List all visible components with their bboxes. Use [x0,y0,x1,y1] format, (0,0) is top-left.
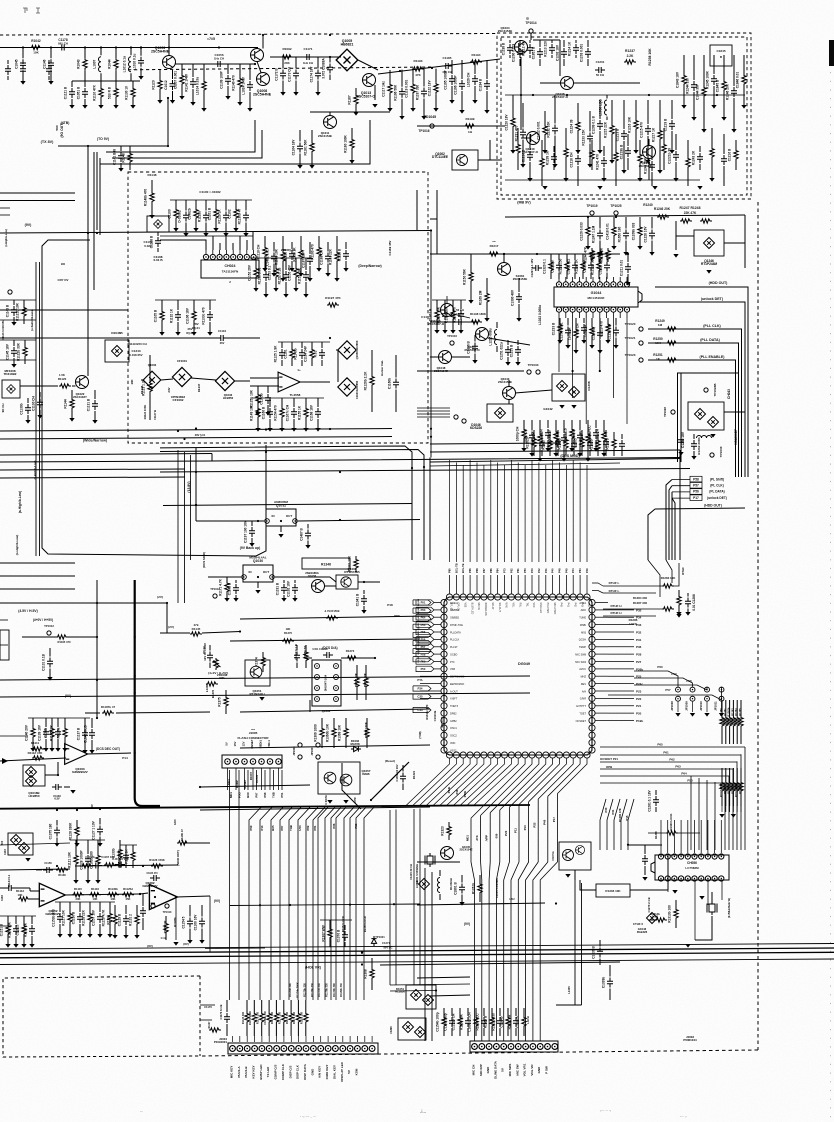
wire CH024 pin3 [219,243,221,250]
flag tag P34 [413,686,431,691]
svg-text:P80: P80 [448,568,452,573]
svg-text:R1309 1000: R1309 1000 [314,724,318,742]
svg-text:C1106 18V: C1106 18V [186,307,190,324]
svg-text:TL4558: TL4558 [290,393,301,397]
svg-text:R1176 330: R1176 330 [271,1011,274,1024]
jumper pad JP1037 b [316,755,320,759]
svg-text:R1112 47K: R1112 47K [28,751,44,755]
svg-text:P17: P17 [552,817,556,822]
capacitor C1213 [20,60,26,80]
svg-text:C1167c CH: C1167c CH [286,404,290,421]
dashed box PLL/VCO unit outer [497,33,751,199]
svg-text:R1146: R1146 [140,385,144,394]
capacitor C1172 [265,386,271,416]
svg-text:C1174 18V: C1174 18V [310,66,314,83]
ground [652,186,657,190]
connector pin J1004-9 [288,1046,294,1052]
filter element [7,385,16,394]
wire CH056 top pin [694,842,696,853]
junction [349,904,351,906]
svg-text:R1178b 330: R1178b 330 [326,983,329,997]
resistor R1109 [237,64,242,106]
pad reg1 out [293,519,298,524]
svg-text:P58: P58 [421,652,426,656]
capacitor C1160 [289,242,295,272]
capacitor C1120 [587,111,593,168]
wire drop x97 [96,580,98,718]
resistor R1130b [107,893,119,897]
resistor R1208 [282,1000,286,1036]
junction [566,94,568,96]
svg-text:L1014 0.33u: L1014 0.33u [196,77,200,95]
svg-text:BCL-TE: BCL-TE [461,563,465,573]
svg-text:C1100: C1100 [168,209,172,218]
wire [45,774,58,776]
pin pad QFP top 13 [529,594,535,600]
resistor R1139 [589,318,594,349]
svg-text:C1130 CH: C1130 CH [32,395,36,410]
wire ref line [430,253,560,255]
wire drop 3 [714,782,716,850]
svg-text:C1152 26V: C1152 26V [248,264,252,281]
capacitor C1130 [527,40,533,58]
svg-text:C1159b B: C1159b B [118,849,122,864]
svg-text:R1131 2: R1131 2 [129,914,133,926]
pin pad QFP right 16 [589,710,595,716]
junction [648,94,650,96]
wire corridor to J1004 pin 4 [280,807,292,1000]
resistor R1237b [624,60,636,64]
svg-text:C1185: C1185 [443,56,452,60]
junction [503,253,505,255]
svg-text:DISPLAY LED: DISPLAY LED [340,1061,344,1081]
resistor R1180b [177,841,189,845]
pin pad Q1292 left 3 [315,686,320,691]
pin pad QFP top 15 [543,594,549,600]
pin pad QFP top 11 [515,594,521,600]
capacitor C1123 [645,100,651,164]
svg-text:1000p CH: 1000p CH [516,426,520,441]
connector pin J1003-3 [486,1044,492,1050]
scan speck [526,17,529,20]
wire audio top [0,843,70,845]
wire J1005 pin wire 3 [264,770,266,790]
svg-text:C1148 B: C1148 B [228,582,232,595]
wire QFP left pin low 11 [420,675,441,677]
wire bank to pad [349,1036,351,1042]
connector pin J1003-1 [472,1044,478,1050]
transistor Q1040 [527,132,540,145]
wire internal bus [505,94,745,96]
wire corridor column 3 [331,807,341,1000]
svg-text:P31: P31 [636,638,642,642]
pin pad QFP left 1 [441,599,447,605]
ground bank2 [731,814,736,818]
wire pin down 7 [694,881,696,940]
resistor R1173 [727,700,731,744]
capacitor C1102 [48,48,54,85]
capacitor C1178 [58,45,68,51]
resistor R1141 [521,420,526,452]
pin pad QFP left 14 [441,695,447,701]
pin pad QFP right 10 [589,666,595,672]
connector pin J1004-7 [274,1046,280,1052]
wire QFP left pin 5 [434,631,441,633]
resistor network R1336 body [596,884,630,897]
wire QFP bus drop 9 [504,541,506,562]
resistor R1115 [510,95,515,154]
svg-text:L1215 068u: L1215 068u [489,328,493,345]
svg-text:P11: P11 [514,828,518,833]
pin wire G1044 top [612,277,614,282]
svg-text:47K: 47K [415,73,421,77]
svg-text:HC2850: HC2850 [28,794,39,798]
svg-text:OSC1: OSC1 [450,727,457,730]
svg-text:DISP DATA: DISP DATA [303,1063,307,1080]
svg-text:NJM2902V: NJM2902V [142,884,157,888]
svg-text:099: 099 [494,833,498,838]
capacitor C1122 [621,100,627,174]
svg-text:C1051 B: C1051 B [77,86,81,99]
pin pad QFP left 13 [441,688,447,694]
wire [36,869,42,871]
wire [166,603,168,633]
junction [115,46,117,48]
jumper pad JP1011 top [719,687,724,692]
svg-text:R1153 10K: R1153 10K [298,267,302,284]
svg-text:P43: P43 [530,568,534,573]
wire [648,832,666,834]
pin pad CH056 bottom 4 [678,876,683,881]
connector pin J1003-10 [537,1044,543,1050]
svg-text:R1242 10K: R1242 10K [644,157,648,174]
wire DTHF 2 [603,592,656,594]
wire [508,400,510,404]
wire stub [200,1004,215,1006]
connector pin J1003-11 [545,1044,551,1050]
resistor R1117 [575,103,580,154]
capacitor C1115 [459,60,465,114]
svg-text:R1320 LOCK: R1320 LOCK [669,814,673,831]
wire CH056 up 6 [700,820,702,842]
svg-text:(2V): (2V) [157,595,163,599]
resistor R1184 [49,718,54,752]
resistor R1179 [727,768,731,806]
wire QFP bottom fan 5 [433,758,478,806]
svg-text:R1262 330K: R1262 330K [697,437,701,455]
svg-text:-.. ,.: -.. ,. [680,1113,687,1118]
svg-text:B(L)B2: B(L)B2 [418,614,420,622]
ground jumper 0 [675,713,680,717]
svg-text:C1219b B: C1219b B [620,144,624,159]
svg-text:R1133 300: R1133 300 [242,1011,245,1024]
svg-text:12V: 12V [242,741,246,746]
svg-text:L1890 L/1CH: L1890 L/1CH [468,1012,472,1032]
svg-text:C1224 39: C1224 39 [570,119,574,133]
svg-text:P44: P44 [587,603,590,608]
wire [183,842,210,844]
digital transistor Q1062 body [452,150,478,170]
resistor R1105 [130,81,135,109]
resistor R1222 [21,916,26,948]
wire vertical drop 4 [499,810,501,862]
connector pin J1005-5 [259,759,265,765]
voltage regulator Q1030 body [243,565,273,582]
pin pad QFP right 8 [589,651,595,657]
resistor R1125 [585,217,590,250]
capacitor C1175 [319,342,325,366]
diode Q1046 inner [112,346,123,357]
junction [57,774,59,776]
capacitor C1221 [342,925,348,947]
svg-text:R1179b 300: R1179b 300 [333,983,336,997]
svg-text:D1046B: D1046B [111,331,123,335]
connector pin J1004-11 [303,1046,309,1052]
resistor R1197 [95,840,100,884]
pin wire G1044 top [578,277,580,282]
wire J1005 pin down [278,768,280,790]
resistor R1193 [332,718,336,748]
wire right ext [608,638,634,640]
connector pin J1003-2 [479,1044,485,1050]
pin pad QFP left 3 [441,614,447,620]
svg-text:P58: P58 [686,679,692,683]
svg-text:C1137 B: C1137 B [77,727,81,740]
wire 808 [200,807,430,810]
svg-text:P68: P68 [475,568,479,573]
resistor R1135 [81,864,93,868]
resistor R1145 [190,632,202,636]
capacitor C1176 [393,355,399,412]
svg-text:R1218 1K: R1218 1K [600,247,604,262]
svg-text:(PLL DATA): (PLL DATA) [700,338,720,342]
svg-text:(DCS DEC OUT): (DCS DEC OUT) [96,747,120,751]
svg-text:≈7#5: ≈7#5 [207,37,215,41]
capacitor C1127 [731,55,737,133]
svg-text:C1191 B: C1191 B [276,582,280,595]
svg-text:R1216 10K: R1216 10K [628,116,632,133]
pin pad QFP left 7 [441,644,447,650]
wire HDD OUT [655,287,748,477]
svg-text:R1120: R1120 [58,377,67,381]
svg-text:GND: GND [486,1066,490,1074]
wire diag corner 3 [621,799,627,850]
svg-text:1103: 1103 [0,895,4,901]
svg-text:ATX: ATX [475,835,479,841]
svg-text:TP1023: TP1023 [625,353,636,357]
wire QFP top pin up 3 [462,575,464,594]
resistor R1147 [149,180,154,219]
flag tag P51 [416,600,434,605]
svg-text:10K: 10K [130,378,134,384]
wire right ext [608,683,634,685]
wire QFP left pin low 13 [420,690,441,692]
diode Q1050b [423,995,434,1006]
svg-text:MIC-W: MIC-W [477,603,480,611]
svg-text:P29: P29 [354,823,358,828]
jumper pad JP1010 bottom [705,696,710,701]
pin pad QFP right 13 [589,688,595,694]
pin pad QFP bottom 5 [474,752,480,758]
wire vertical drop 2 [480,815,482,862]
resistor R1376b [206,682,218,686]
svg-text:C1281 0.1 18V: C1281 0.1 18V [648,790,652,812]
svg-text:R1124 100K: R1124 100K [143,405,147,420]
svg-text:B(L)B4: B(L)B4 [417,631,420,639]
capacitor C1144 [588,254,594,279]
svg-text:(8V): (8V) [183,942,188,946]
capacitor C1199 [140,894,146,930]
wire flag bus 2 [669,486,672,560]
resistor R1188 [304,645,308,668]
transistor Q1022 [76,376,89,389]
resistor R1170 [676,590,681,616]
svg-text:861 CH: 861 CH [58,41,68,45]
svg-text:R1215 22K: R1215 22K [604,121,608,138]
wire 746 line [240,745,430,748]
wire [678,832,700,834]
capacitor C1134b [5,885,15,891]
svg-text:(PLL ENABLE): (PLL ENABLE) [700,355,726,359]
svg-text:P25: P25 [533,822,537,827]
svg-text:IMH6: IMH6 [362,772,369,776]
junction [503,253,505,255]
resistor R1172 [724,700,728,744]
pin pad CH056 bottom 9 [712,876,717,881]
pin pad CH056 top 9 [712,854,717,859]
svg-text:15V: 15V [233,741,237,746]
capacitor C1125 [691,55,697,121]
svg-text:HC2850: HC2850 [395,990,405,994]
pin pad G1044 top 9 [611,282,616,287]
resistor R1185 [62,718,67,752]
svg-text:C1228 16V: C1228 16V [644,226,648,243]
svg-text:(DCS MOD): (DCS MOD) [202,552,206,568]
pin pad QFP right 5 [589,629,595,635]
resistor R1156 [193,200,198,232]
wire QFP bottom fan right 8 [538,758,573,799]
svg-text:C1254 0.001: C1254 0.001 [560,322,564,340]
svg-text:TXL: TXL [525,603,528,608]
capacitor C1193 [54,820,60,847]
svg-text:P84: P84 [496,568,500,573]
junction [96,717,98,719]
wire flag bus 1 [666,480,672,561]
capacitor C1121 [597,100,603,154]
svg-text:C1221b 39: C1221b 39 [668,148,672,164]
svg-text:C1187 18V: C1187 18V [302,251,306,268]
wire diag corner 4 [628,799,634,850]
svg-text:VOL VR: VOL VR [530,1064,534,1076]
svg-text:TP1030: TP1030 [719,446,723,457]
wire QFP bottom fan right 4 [500,758,546,810]
wire [163,504,412,506]
wire corridor boundary 2 [342,763,361,809]
wire [85,712,100,714]
resistor R1101 [83,48,87,82]
pin pad QFP top 5 [474,594,480,600]
capacitor C1158 [43,867,53,873]
transistor Q1038 [561,77,574,90]
svg-text:(4+0V / H+5V): (4+0V / H+5V) [33,618,53,622]
svg-text:VSS2: VSS2 [450,749,457,752]
svg-text:R1044: R1044 [108,59,112,69]
capacitor C1180 [249,521,255,547]
pin pad QFP right 1 [589,599,595,605]
connector J1004 body [228,1043,378,1054]
svg-text:VOL: VOL [512,603,515,608]
pin pad CH024 pin 8 [251,254,256,259]
pin wire G1044 bottom [619,313,621,319]
svg-text:DIAL KEY: DIAL KEY [332,1065,336,1079]
resistor R1198 [470,320,482,324]
ground [697,186,702,190]
pin pad QFP bottom 7 [488,752,494,758]
wire CH056 up 4 [687,820,689,842]
transistor G1054b [575,845,584,854]
wire corridor to J1004 pin 2 [260,807,272,1000]
svg-text:P34: P34 [418,687,423,691]
wire QFP bottom fan right 2 [481,758,532,815]
flag tag P86 [413,640,431,645]
pin wire G1044 top [626,277,628,282]
wire [29,888,31,891]
svg-text:C1313 B: C1313 B [433,711,437,722]
svg-text:R1244 47K: R1244 47K [584,246,588,263]
junction [627,253,629,255]
ground Q1016C [25,858,30,862]
wire [257,62,261,73]
svg-text:19K: 19K [286,627,291,631]
capacitor C1169 [25,398,31,424]
svg-text:12V IO C1108: 12V IO C1108 [203,643,207,661]
svg-text:(MB 9V): (MB 9V) [517,201,531,205]
wire QFP top pin up 15 [545,575,547,594]
diode network Q1051b body [398,1018,426,1040]
svg-text:P97: P97 [255,792,259,797]
svg-text:TX LED: TX LED [266,1066,270,1078]
pin wire G1044 bottom [565,313,567,319]
pin pad QFP top 7 [488,594,494,600]
wire flag bus 3 [671,492,673,560]
wire PLL CLK [648,329,742,477]
svg-text:C1370 B: C1370 B [337,929,341,942]
op-amp Q1082 [149,884,177,909]
resistor R1159 [69,390,74,422]
svg-text:C1220 18V: C1220 18V [505,114,509,131]
wire J1005 pin wire 5 [281,770,283,790]
svg-text:C1253 B: C1253 B [510,344,514,357]
resistor R1227 [328,920,332,947]
wire stub 2 [200,1019,212,1021]
resistor R1143 [553,420,558,457]
svg-text:R1287 330: R1287 330 [633,601,648,605]
svg-text:P41: P41 [567,603,570,608]
wire drop to diode network 3 [413,809,415,985]
svg-text:HB6821: HB6821 [341,43,354,47]
flag box P17 [690,495,702,501]
capacitor C1164 [297,130,303,169]
svg-text:C1104: C1104 [218,329,227,333]
wire P50 [600,782,725,784]
svg-text:R1246 20K: R1246 20K [726,83,730,100]
pin pad CH024 pin 3 [217,254,222,259]
resistor R1112 [32,756,44,760]
wire [57,762,59,775]
svg-text:Hantar C&L: Hantar C&L [380,360,384,376]
svg-text:P63: P63 [421,608,426,612]
capacitor C1147 [565,318,571,349]
